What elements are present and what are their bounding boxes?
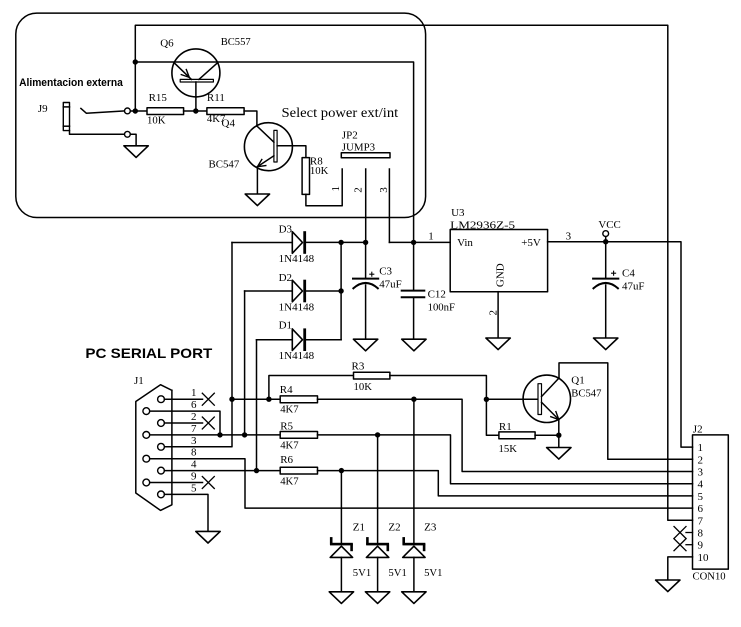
svg-text:3: 3 xyxy=(566,230,572,242)
junction dot (R3 / R4 row) xyxy=(266,397,271,402)
wire: D3 node to R4 xyxy=(232,398,280,400)
svg-text:4K7: 4K7 xyxy=(280,476,299,488)
resistor R15 xyxy=(147,108,184,115)
wire: Q4 emitter to ground xyxy=(256,167,258,194)
ground (Q1 emitter) xyxy=(547,448,571,460)
transistor Q1 (BC547 NPN) xyxy=(523,375,570,422)
wire: Z1 from row xyxy=(340,471,342,543)
wire: R5 to J2 pin 4 xyxy=(318,435,693,484)
svg-text:BC557: BC557 xyxy=(221,36,251,48)
wire: D1 anode drop to J1 pin4 row xyxy=(256,340,258,471)
wire: Z3 from row xyxy=(413,399,415,543)
junction dot (D2 / pin7 row) xyxy=(242,432,247,437)
diode D3 (1N4148) xyxy=(292,232,302,254)
svg-text:15K: 15K xyxy=(499,443,518,455)
resistor R8 xyxy=(302,158,309,195)
svg-text:6: 6 xyxy=(191,399,197,411)
wire: U3 +5V to VCC rail and J2 pin 1 xyxy=(548,242,693,447)
svg-text:D3: D3 xyxy=(279,224,293,236)
wire: J1 pin 7 row to R5 xyxy=(150,434,281,436)
svg-text:5: 5 xyxy=(698,491,704,503)
power symbol VCC xyxy=(605,236,607,241)
wire: J9 sleeve to ground xyxy=(130,134,136,146)
svg-text:10K: 10K xyxy=(354,381,373,393)
svg-text:J9: J9 xyxy=(38,103,48,115)
svg-text:1: 1 xyxy=(428,230,434,242)
svg-text:9: 9 xyxy=(698,540,704,552)
ground (J1 pin 5) xyxy=(196,531,220,543)
svg-text:7: 7 xyxy=(698,515,704,527)
wire: Z2 anode to ground xyxy=(377,557,379,591)
ground (U3 GND) xyxy=(486,338,510,350)
svg-text:1N4148: 1N4148 xyxy=(279,253,315,265)
svg-text:1: 1 xyxy=(191,387,197,399)
svg-text:47uF: 47uF xyxy=(379,279,402,291)
wire: J1 pin 4 row to R6 xyxy=(164,470,280,472)
svg-text:1: 1 xyxy=(698,442,704,454)
svg-text:BC547: BC547 xyxy=(209,158,240,170)
junction dot (Q6 feed / C12 / rail) xyxy=(411,240,416,245)
zener diode Z2 (5V1) xyxy=(366,543,389,546)
svg-text:LM2936Z-5: LM2936Z-5 xyxy=(450,220,515,232)
connector J9 (DC power jack) xyxy=(63,103,69,131)
svg-text:Q1: Q1 xyxy=(571,375,584,387)
wire: R1 to emitter node xyxy=(535,434,559,436)
junction dot (Z1 / R6 row) xyxy=(339,468,344,473)
junction dot (ext rail / Q6 row) xyxy=(133,59,138,64)
transistor Q4 (BC547 NPN) xyxy=(244,123,292,171)
wire: R8 to JP2 pin 1 xyxy=(306,169,342,206)
pin circles J1 (6-9) xyxy=(143,408,150,415)
svg-text:R6: R6 xyxy=(280,454,293,466)
svg-text:R5: R5 xyxy=(280,420,293,432)
wire: D2 anode drop to J1 pin7 row xyxy=(244,291,246,435)
svg-text:4: 4 xyxy=(191,459,197,471)
resistor R5 xyxy=(280,432,317,439)
svg-text:R3: R3 xyxy=(352,360,365,372)
wire: JP2 pin 2 down to diode rail xyxy=(365,169,367,242)
svg-text:GND: GND xyxy=(494,263,506,287)
svg-text:9: 9 xyxy=(191,471,197,483)
svg-text:2: 2 xyxy=(353,187,365,193)
wire: D2 anode row xyxy=(245,290,293,292)
ground (J9) xyxy=(124,146,148,158)
wire: J2 pin 10 to ground xyxy=(668,557,693,580)
wire: J9 tip to R15 xyxy=(130,110,147,112)
svg-text:C4: C4 xyxy=(622,267,635,279)
no-connect X (J2 pin 9) xyxy=(674,539,686,551)
ground (J2 pin 10) xyxy=(656,580,680,592)
no-connect X (J1 pin 2) xyxy=(202,417,214,429)
ground (C12) xyxy=(402,339,426,351)
svg-text:3: 3 xyxy=(378,187,390,193)
wire: D2 cathode to bus xyxy=(306,290,341,292)
svg-text:2: 2 xyxy=(698,454,704,466)
junction dot (Z3 / R4 row) xyxy=(411,397,416,402)
svg-text:PC SERIAL PORT: PC SERIAL PORT xyxy=(85,345,212,361)
wire: C12 to ground xyxy=(413,298,415,340)
ground (C4) xyxy=(594,338,618,350)
svg-text:D2: D2 xyxy=(279,272,292,284)
wire: J1 pin 6 to pin 7 row xyxy=(150,411,220,435)
wire: J1 pin 5 to ground xyxy=(164,494,208,531)
wire: J1 pin 9 stub (NC) xyxy=(150,482,203,484)
ground (Z3) xyxy=(402,592,426,604)
svg-text:JUMP3: JUMP3 xyxy=(342,142,376,154)
svg-text:10K: 10K xyxy=(310,165,329,177)
svg-text:R1: R1 xyxy=(499,421,512,433)
resistor R1 xyxy=(499,432,535,439)
resistor R6 xyxy=(280,467,317,474)
wire: diode rail (D3 cathode to C3 node) xyxy=(306,241,366,243)
wire: R3 left to R4 row xyxy=(269,376,354,400)
resistor R3 xyxy=(354,372,390,379)
junction dot (D1 / pin4 row) xyxy=(254,468,259,473)
svg-text:4K7: 4K7 xyxy=(280,403,299,415)
svg-text:J2: J2 xyxy=(693,424,703,436)
junction dot (Z2 / R5 row) xyxy=(375,432,380,437)
pin circles J1 (1-5) xyxy=(158,396,165,403)
svg-text:R4: R4 xyxy=(280,384,293,396)
zener diode Z1 (5V1) xyxy=(330,543,353,546)
svg-text:47uF: 47uF xyxy=(622,280,645,292)
svg-text:JP2: JP2 xyxy=(342,129,358,141)
no-connect X (J1 pin 9) xyxy=(202,477,214,489)
svg-text:D1: D1 xyxy=(279,320,292,332)
svg-text:1: 1 xyxy=(330,186,342,192)
junction dot (R15/R11/Q6 base) xyxy=(193,108,198,113)
svg-text:R11: R11 xyxy=(207,92,225,104)
wire: Q6 base to R15/R11 node xyxy=(195,82,197,111)
junction dot (pin6/pin7) xyxy=(217,432,222,437)
wire: R15 to R11 xyxy=(184,110,207,112)
svg-text:1N4148: 1N4148 xyxy=(279,302,315,314)
wire: R4 to J2 pin 3 xyxy=(318,399,693,471)
wire: J9 sleeve xyxy=(70,131,125,135)
wire: rail to C12 xyxy=(413,242,415,290)
junction dot (VCC) xyxy=(603,239,608,244)
svg-text:6: 6 xyxy=(698,503,704,515)
svg-text:Q6: Q6 xyxy=(160,38,174,50)
wire: JP2 pin 3 down to Vin rail xyxy=(388,169,390,242)
svg-text:BC547: BC547 xyxy=(571,388,602,400)
wire: C4 to ground xyxy=(605,285,607,338)
wire: C3 to ground xyxy=(365,285,367,339)
junction dot (diode bus / rail) xyxy=(338,240,343,245)
svg-text:Z2: Z2 xyxy=(388,522,400,534)
svg-text:5V1: 5V1 xyxy=(424,567,442,579)
svg-text:3: 3 xyxy=(698,467,704,479)
wire: Z2 from row xyxy=(377,435,379,543)
junction dot (R1 / Q1 emitter) xyxy=(556,433,561,438)
svg-text:Alimentacion externa: Alimentacion externa xyxy=(19,77,124,89)
terminal circle (J9 tip) xyxy=(125,108,131,114)
svg-text:VCC: VCC xyxy=(598,219,620,231)
svg-text:100nF: 100nF xyxy=(428,301,455,313)
svg-text:Vin: Vin xyxy=(457,237,473,249)
svg-text:Select power ext/int: Select power ext/int xyxy=(282,105,399,120)
connector J1 (DB9 shell) xyxy=(136,385,172,511)
wire: Q4 base to R8 xyxy=(277,146,306,158)
terminal circle (J9 sleeve) xyxy=(125,131,131,137)
svg-text:10: 10 xyxy=(698,552,710,564)
wire: R3 right to Q1 base node and R1 xyxy=(390,376,499,436)
wire: U3 GND pin to ground xyxy=(497,292,499,338)
wire: J1 pin 1 stub (NC) xyxy=(164,398,202,400)
wire: J1 pin 2 stub (NC) xyxy=(164,422,202,424)
junction dot (D2 cathode / bus) xyxy=(338,288,343,293)
diode D2 (1N4148) xyxy=(292,280,302,302)
svg-text:10K: 10K xyxy=(147,115,166,127)
enclosure box (Alimentacion externa section) xyxy=(16,13,426,217)
wire: Q1 collector to J2 pin 2 xyxy=(559,363,693,459)
junction dot (C3 / JP2 pin2 / rail) xyxy=(363,240,368,245)
wire: Q1 base xyxy=(486,398,538,400)
diode D1 (1N4148) xyxy=(292,329,302,351)
wire: Q1 emitter down xyxy=(558,420,560,436)
wire: rail to C3 xyxy=(365,242,367,278)
wire: ext power rail from J9 up and across top to J2 pin 7 xyxy=(135,25,692,520)
svg-text:U3: U3 xyxy=(451,207,465,219)
wire: D3 anode row xyxy=(232,242,292,244)
svg-text:R15: R15 xyxy=(149,92,168,104)
svg-text:2: 2 xyxy=(191,411,197,423)
resistor R11 xyxy=(207,108,244,115)
resistor R4 xyxy=(280,396,317,403)
ground (Q4 emitter) xyxy=(245,194,269,206)
svg-text:4: 4 xyxy=(698,479,704,491)
plus mark (C4) xyxy=(612,272,616,274)
ground (Z1) xyxy=(329,592,353,604)
junction dot (Q1 base node) xyxy=(484,397,489,402)
junction dot (J9/R15/ext rail) xyxy=(133,108,138,113)
wire: R11 to Q4 collector xyxy=(244,111,257,126)
plus mark (C3) xyxy=(370,273,374,275)
capacitor C12 100nF xyxy=(402,290,425,292)
junction dot (D3 drop / R4 row) xyxy=(229,397,234,402)
no-connect X (J2 pin 8) xyxy=(674,527,686,539)
svg-text:4K7: 4K7 xyxy=(280,440,299,452)
ground (Z2) xyxy=(365,592,389,604)
wire: VCC to C4 xyxy=(605,242,607,279)
svg-text:8: 8 xyxy=(191,447,197,459)
svg-text:3: 3 xyxy=(191,435,197,447)
wire: diode cathode bus xyxy=(340,242,342,339)
svg-text:8: 8 xyxy=(698,528,704,540)
jumper JP2 header xyxy=(341,153,390,158)
no-connect X (J1 pin 1) xyxy=(202,393,214,405)
wire: emitter node to ground xyxy=(558,435,560,447)
svg-text:Q4: Q4 xyxy=(222,118,236,130)
wire: R6 to J2 pin 5 xyxy=(318,471,693,496)
wire: D3 anode from J1 pin 3 xyxy=(164,243,232,447)
wire: D1 anode row xyxy=(257,339,293,341)
svg-text:Z1: Z1 xyxy=(353,522,365,534)
svg-text:+5V: +5V xyxy=(521,237,541,249)
zener diode Z3 (5V1) xyxy=(403,543,426,546)
svg-text:5V1: 5V1 xyxy=(353,567,371,579)
wire: J1 pin 8 to J2 pin 6 xyxy=(150,459,693,508)
capacitor C4 47uF (polarized) xyxy=(593,278,618,280)
svg-text:CON10: CON10 xyxy=(693,570,727,582)
wire: Z1 anode to ground xyxy=(340,557,342,591)
svg-text:5: 5 xyxy=(191,482,197,494)
wire: Q6 collector row to Vin rail xyxy=(135,62,413,242)
svg-text:Z3: Z3 xyxy=(424,522,437,534)
svg-text:J1: J1 xyxy=(134,375,144,387)
svg-text:C12: C12 xyxy=(428,288,446,300)
svg-text:C3: C3 xyxy=(379,266,392,278)
wire: Z3 anode to ground xyxy=(413,557,415,591)
svg-text:1N4148: 1N4148 xyxy=(279,350,315,362)
ground (C3) xyxy=(353,339,377,351)
wire: D1 cathode to bus xyxy=(306,339,341,341)
svg-text:5V1: 5V1 xyxy=(388,567,406,579)
transistor Q6 (BC557 PNP) xyxy=(172,49,220,97)
wire: JP2 pin 3 rail to U3 Vin xyxy=(389,241,450,243)
connector J2 box (CON10) xyxy=(693,435,729,569)
voltage regulator U3 box xyxy=(450,230,547,292)
svg-text:7: 7 xyxy=(191,423,197,435)
capacitor C3 47uF (polarized) xyxy=(353,278,378,280)
